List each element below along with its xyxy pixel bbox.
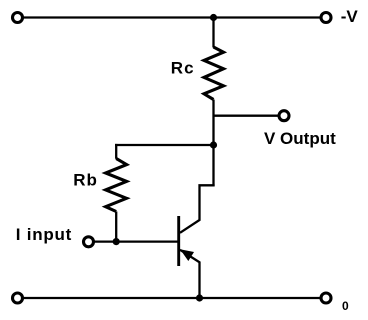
wire top rail xyxy=(18,16,327,18)
transistor Q1 emitter arrow (PNP) xyxy=(181,250,193,260)
svg-text:Rc: Rc xyxy=(171,58,195,77)
wire from node to Rb top xyxy=(115,144,215,146)
junction dot bottom rail xyxy=(196,294,203,301)
terminal -V top-right xyxy=(321,13,331,23)
resistor Rb xyxy=(106,159,127,212)
svg-text:Rb: Rb xyxy=(73,171,98,190)
junction dot top rail xyxy=(210,14,217,21)
wire Rb bottom lead xyxy=(115,212,117,242)
terminal bottom-left xyxy=(13,293,23,303)
wire Rb top lead xyxy=(115,144,117,159)
resistor Rc xyxy=(204,47,224,100)
terminal I input xyxy=(84,237,94,247)
svg-text:-V: -V xyxy=(341,7,359,26)
wire bottom rail xyxy=(18,297,327,299)
junction dot base node xyxy=(113,238,120,245)
junction dot collector node xyxy=(210,141,217,148)
terminal top-left xyxy=(13,13,23,23)
wire output branch xyxy=(214,115,285,117)
wire collector jog xyxy=(180,185,215,233)
transistor Q1 emitter wire xyxy=(180,250,200,298)
transistor Q1 base bar xyxy=(177,216,180,266)
svg-text:V Output: V Output xyxy=(264,129,336,148)
wire base xyxy=(89,240,179,242)
terminal 0 bottom-right xyxy=(321,293,331,303)
svg-text:0: 0 xyxy=(342,299,349,313)
svg-text:I input: I input xyxy=(16,225,72,244)
terminal V Output xyxy=(279,111,289,121)
wire Rc bottom lead down to collector jog xyxy=(212,100,214,187)
wire Rc branch vertical top lead xyxy=(212,18,214,48)
